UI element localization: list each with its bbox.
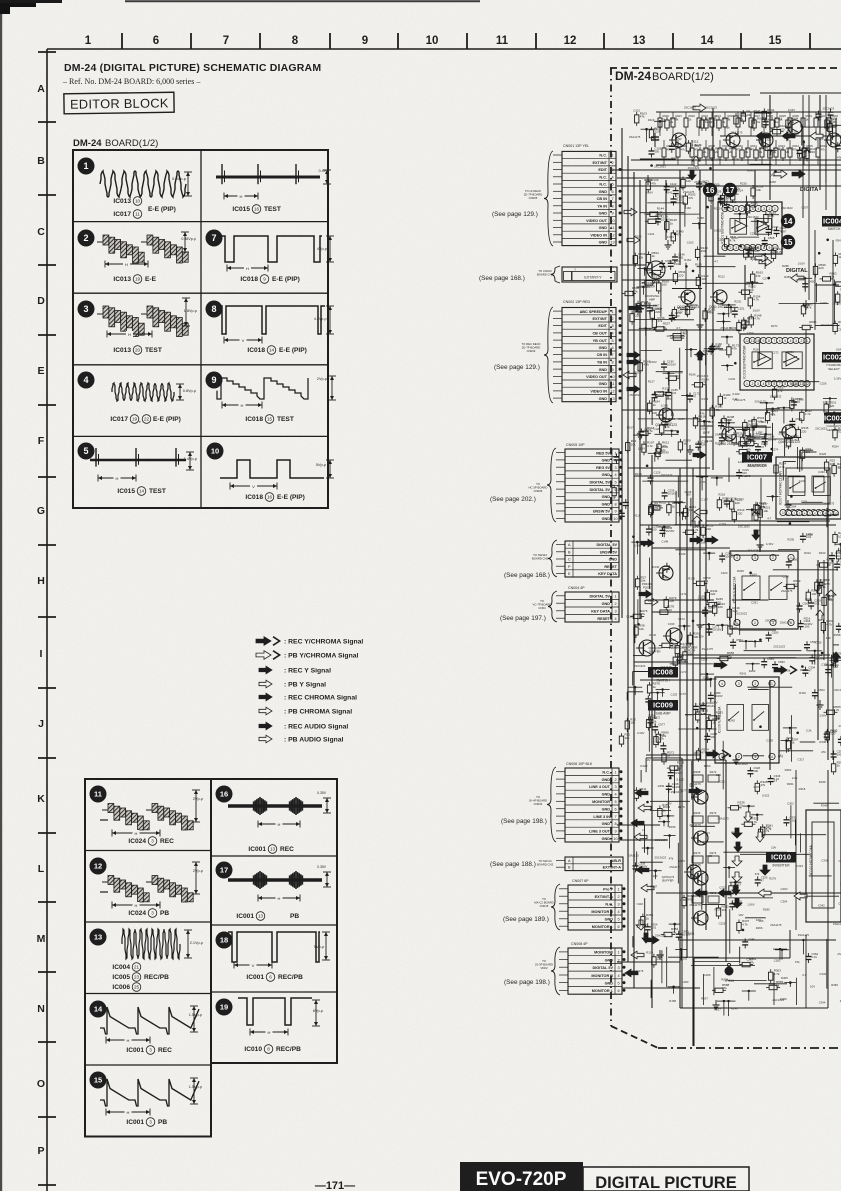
junction j334: [646, 801, 649, 804]
wire x307: [804, 895, 839, 897]
wire right rail 3: [805, 330, 807, 412]
resistor R565: [824, 705, 841, 715]
wire vseg 27: [800, 833, 802, 852]
ground 12: [817, 700, 824, 709]
node 587: [742, 990, 756, 1001]
value label t122: [717, 816, 729, 820]
schematic border dashed: [610, 68, 841, 1048]
resistor R189: [692, 377, 710, 387]
resistor R170: [670, 328, 688, 338]
node 541: [827, 411, 841, 425]
resistor R279: [664, 596, 677, 611]
value label 187: [712, 700, 717, 704]
wire seg 27: [650, 809, 671, 811]
resistor R107: [649, 126, 662, 141]
signal arrow 22: [631, 951, 644, 959]
panel 9 label: [245, 415, 293, 424]
wire vseg 8: [665, 392, 667, 419]
value label t187: [780, 230, 787, 234]
brace EXT/INT-Y: [551, 266, 560, 283]
resistor R232: [649, 500, 667, 510]
resistor R126: [745, 201, 758, 216]
capacitor C551: [730, 638, 743, 649]
panel 5 label: [117, 487, 165, 496]
value label t19: [648, 118, 655, 122]
value label t30: [653, 565, 660, 569]
junction j316: [739, 245, 742, 248]
resistor R112: [686, 140, 698, 155]
wire horizontal 3: [617, 185, 668, 187]
resistor R548: [728, 623, 741, 638]
wire vertical rail 12: [712, 108, 714, 470]
value label t21: [654, 165, 666, 169]
value label t198: [780, 621, 792, 625]
wire y290: [673, 766, 675, 794]
node 581: [796, 939, 810, 954]
value label t1: [633, 109, 640, 113]
node 603: [798, 277, 812, 292]
waveform panel 10 pulses: [207, 443, 335, 490]
value label 117: [767, 516, 771, 520]
value label t10: [634, 514, 641, 518]
value label t242: [818, 904, 825, 908]
wire seg 4: [702, 282, 763, 284]
value label t42: [667, 235, 674, 239]
resistor P24: [833, 426, 841, 441]
value label t159: [747, 549, 759, 553]
value label t28: [653, 427, 660, 431]
value label t11: [634, 544, 641, 548]
junction j318: [674, 233, 677, 236]
value label t109: [713, 182, 720, 186]
ground 3: [742, 320, 749, 329]
resistor R138: [720, 192, 733, 207]
wire seg 6: [728, 980, 767, 982]
waveform panel 9 staircase: [206, 372, 337, 409]
value label t50: [668, 622, 675, 626]
node dot 192: [781, 739, 793, 753]
resistor RT1: [671, 112, 682, 136]
wire seg 42: [666, 459, 692, 461]
wire x273: [800, 741, 816, 743]
waveform panel 8 pulses: [206, 301, 335, 344]
resistor R601: [833, 252, 841, 267]
resistor R514: [731, 189, 744, 204]
see page 197: [500, 615, 546, 622]
resistor R180: [718, 393, 731, 408]
transistor Q049: [663, 628, 682, 649]
value label 95: [707, 439, 713, 443]
panel 4 label: [110, 415, 180, 424]
value label t152: [753, 309, 760, 313]
wire y305: [668, 374, 670, 393]
connector EXT/INT-Y: [562, 267, 617, 282]
value label t99: [698, 595, 705, 599]
value label 231: [716, 773, 721, 777]
value label t82: [681, 957, 688, 961]
value label t217: [798, 758, 805, 762]
resistor R612: [657, 441, 670, 456]
junction j336: [669, 777, 672, 780]
node dot 123: [746, 508, 758, 521]
value label t170: [763, 277, 770, 281]
wire horizontal 19: [700, 409, 841, 411]
value label t71: [680, 592, 687, 596]
capacitor C508: [762, 236, 775, 247]
value label t238: [819, 740, 826, 744]
value label t73: [683, 644, 690, 648]
resistor R596: [633, 252, 646, 267]
resistor R133: [645, 214, 663, 224]
panel 12 label: [128, 909, 169, 918]
value label 153: [806, 533, 813, 537]
ref bubble 16: [703, 183, 717, 197]
DIGITAL PICTURE label: [583, 1167, 749, 1191]
value label t146: [731, 1007, 738, 1011]
capacitor C593: [659, 259, 672, 270]
value label t76: [685, 713, 692, 717]
value label t155: [755, 399, 767, 403]
signal arrow v12: [696, 350, 704, 360]
value label 238: [759, 919, 764, 923]
wire vertical rail 1: [621, 128, 623, 618]
node dot 120: [711, 477, 723, 486]
resistor R353: [661, 927, 679, 937]
value label t229: [819, 452, 826, 456]
signal arrow 20: [641, 884, 654, 892]
value label t52: [660, 665, 672, 669]
capacitor C120: [784, 130, 799, 141]
value label t205: [781, 976, 788, 980]
resistor C003: [734, 113, 747, 128]
signal arrow v13: [692, 516, 702, 526]
signal arrow 19: [636, 866, 649, 874]
value label 205: [640, 764, 648, 768]
value label t9: [635, 472, 642, 476]
panel 11 label: [128, 837, 174, 846]
capacitor P33: [660, 742, 666, 752]
wire vertical rail 7: [679, 468, 681, 1008]
value label 210: [657, 784, 664, 788]
value label t207: [801, 205, 808, 209]
wire vertical rail 18: [817, 560, 819, 740]
label PRF200: [642, 582, 653, 590]
value label t132: [734, 299, 741, 303]
value label 122: [760, 456, 768, 460]
resistor R503: [683, 193, 696, 208]
resistor R533: [736, 444, 754, 454]
resistor R542: [800, 409, 813, 424]
value label t102: [694, 712, 706, 716]
resistor R008: [724, 147, 737, 162]
value label t106: [704, 973, 711, 977]
resistor P26: [673, 654, 684, 669]
resistor R534: [752, 416, 765, 431]
value label t57: [669, 865, 681, 869]
value label t46: [661, 473, 673, 477]
resistor R172: [670, 331, 688, 341]
wire y287: [671, 392, 673, 417]
node 504: [692, 222, 706, 229]
node 535: [760, 402, 774, 415]
wire top bus 3: [612, 160, 841, 186]
node dot 186: [705, 678, 717, 688]
wire vseg 13: [637, 599, 639, 626]
value label t25: [644, 302, 651, 306]
resistor R517: [650, 307, 663, 322]
capacitor C301: [838, 735, 841, 746]
wire horizontal 27: [656, 185, 700, 187]
wire right rail 4: [825, 95, 827, 210]
node 546: [777, 407, 791, 424]
capacitor C507: [673, 186, 686, 197]
label IC002 right edge: [822, 352, 841, 363]
resistor R224: [774, 462, 787, 477]
wire right rail 0: [802, 95, 804, 218]
node 582: [722, 1000, 736, 1016]
transistor Q030: [684, 865, 701, 879]
capacitor C199: [695, 440, 708, 451]
value label t264: [837, 952, 841, 956]
resistor R165: [751, 271, 764, 286]
op-amp symbol IC002a: [758, 352, 771, 366]
resistor R583: [739, 957, 757, 967]
op-amp IC002 block: [740, 334, 814, 390]
wire seg 40: [697, 266, 736, 268]
value label t18: [632, 969, 644, 973]
wire horizontal 11: [652, 547, 730, 549]
transistor Q073: [689, 891, 719, 925]
value label t40: [672, 156, 679, 160]
wire vseg 12: [677, 843, 679, 884]
wire vseg 28: [703, 974, 705, 1005]
resistor R545: [796, 426, 809, 441]
legend signal arrows: [256, 637, 363, 744]
node 558: [825, 664, 839, 678]
value label t90: [705, 309, 712, 313]
value label t160: [750, 573, 757, 577]
capacitor C115: [835, 141, 841, 152]
value label 199: [838, 724, 841, 728]
resistor R607: [801, 302, 814, 317]
resistor R589: [766, 980, 784, 990]
node 525: [680, 308, 694, 315]
value label t101: [701, 657, 708, 661]
resistor R345: [758, 826, 771, 841]
wire y291: [826, 508, 828, 527]
wire vertical rail 4: [639, 180, 641, 618]
signal arrow v5: [734, 842, 742, 852]
capacitor P37: [645, 695, 651, 705]
see page 188: [490, 861, 536, 868]
capacitor C364: [805, 952, 818, 963]
resistor P25: [654, 733, 665, 748]
value label t66: [689, 372, 696, 376]
value label t119: [719, 522, 726, 526]
value label t248: [840, 288, 841, 292]
junction j350: [729, 754, 732, 757]
resistor R173: [727, 343, 740, 358]
value label 5: [724, 126, 730, 130]
wire x286: [702, 903, 725, 905]
capacitor C167: [697, 349, 710, 360]
label IC008: [648, 667, 678, 683]
node dot 76: [721, 336, 733, 345]
capacitor P4: [763, 118, 769, 128]
resistor R229: [730, 498, 743, 512]
resistor R184: [647, 400, 660, 415]
connector CN007: [559, 879, 622, 930]
wire horizontal 15: [640, 679, 712, 681]
junction j323: [696, 727, 699, 730]
wire P36: [646, 758, 681, 772]
signal arrow 24: [714, 661, 727, 669]
value label t129: [732, 157, 739, 161]
value label t167: [747, 958, 754, 962]
value label t7: [627, 425, 634, 429]
signal arrow 15: [638, 804, 651, 812]
value label t189: [784, 275, 791, 279]
value label t26: [649, 360, 656, 364]
value label t77: [680, 788, 687, 792]
resistor R599: [813, 263, 826, 278]
resistor R278: [657, 605, 675, 615]
net DIGITAL mid: [786, 268, 808, 282]
value label t92: [697, 374, 709, 378]
panel 10 label: [245, 493, 304, 502]
resistor P21: [832, 462, 841, 477]
value label t260: [839, 859, 841, 863]
value label t250: [837, 327, 841, 331]
resistor R162: [739, 285, 757, 295]
resistor R148: [749, 313, 762, 328]
resistor R007: [710, 147, 723, 162]
see page 198 upper: [501, 818, 547, 825]
wire seg 12: [746, 438, 786, 440]
value label t179: [769, 877, 776, 881]
resistor R017: [781, 147, 794, 162]
value label t24: [648, 232, 655, 236]
node dot 118: [767, 495, 779, 501]
value label t216: [799, 691, 806, 695]
panel 16 label: [248, 845, 294, 854]
net DIGITAL upper: [800, 187, 818, 193]
value label t237: [819, 714, 826, 718]
resistor P19: [800, 447, 811, 462]
capacitor C304: [802, 666, 815, 677]
value label t182: [774, 959, 781, 963]
resistor R245: [706, 597, 724, 607]
value label 215: [677, 778, 685, 782]
resistor R011: [740, 147, 752, 162]
wire vseg 10: [797, 447, 799, 469]
value label 170: [699, 634, 704, 638]
resistor RB10: [802, 140, 813, 165]
wire vertical rail 10: [699, 170, 701, 760]
value label t114: [720, 326, 732, 330]
wire y311: [654, 704, 656, 719]
schematic title: [615, 69, 714, 83]
wire y268: [644, 898, 646, 940]
value label t107: [701, 997, 708, 1001]
wire y299: [710, 205, 712, 230]
resistor R276: [630, 609, 648, 619]
value label t31: [648, 599, 655, 603]
resistor R271: [675, 642, 688, 657]
wire y281: [675, 491, 677, 525]
brace CN008: [551, 947, 560, 995]
wire seg 17: [650, 800, 690, 802]
wire vertical rail 22: [744, 265, 746, 300]
capacitor P34: [664, 563, 670, 573]
value label t265: [831, 983, 838, 987]
capacitor C325: [729, 899, 742, 910]
waveform panel 7 pulses: [206, 230, 335, 272]
wire y275: [825, 160, 827, 183]
waveform panel 15 sawtooth: [90, 1072, 203, 1116]
capacitor C288: [704, 732, 717, 743]
signal arrow 23: [625, 969, 638, 977]
wire vertical rail 24: [665, 180, 667, 240]
capacitor C216: [724, 497, 737, 508]
wire P28: [627, 692, 643, 701]
capacitor C192: [709, 342, 722, 353]
value label t154: [753, 348, 760, 352]
value label t222: [817, 137, 824, 141]
wire x300: [672, 288, 702, 290]
wire y297: [651, 398, 653, 425]
value label t133: [730, 326, 737, 330]
value label t150: [750, 231, 757, 235]
see page 129 lower: [494, 364, 540, 371]
waveform panel 18 pulses: [216, 932, 331, 969]
junction j321: [646, 465, 649, 468]
wire P1: [802, 127, 837, 145]
value label t74: [679, 670, 686, 674]
resistor R291: [831, 760, 841, 775]
wire horizontal 29: [700, 94, 750, 96]
value label t56: [669, 825, 676, 829]
resistor R159: [685, 303, 698, 318]
capacitor C108: [797, 146, 810, 157]
wire horizontal 5: [622, 279, 700, 281]
node 592: [637, 286, 651, 295]
resistor R249: [727, 606, 740, 621]
resistor R264: [821, 619, 834, 634]
node dot 51: [718, 313, 730, 325]
value label t256: [840, 495, 841, 499]
resistor P13: [626, 439, 637, 454]
wire horizontal 22: [622, 987, 700, 989]
capacitor C215: [736, 468, 749, 479]
capacitor C564: [812, 688, 825, 699]
capacitor P2: [828, 109, 834, 119]
wire seg 2: [640, 212, 684, 214]
value label t208: [798, 261, 805, 265]
node 502: [765, 214, 779, 229]
resistor R511: [725, 235, 737, 250]
value label t259: [834, 688, 841, 692]
wire y298: [679, 348, 681, 390]
resistor R598: [622, 286, 640, 296]
chevron arrow IC009 in: [706, 750, 783, 758]
resistor R210: [732, 431, 745, 446]
value label 64: [720, 300, 725, 304]
resistor R311: [634, 787, 646, 802]
wire right rail 6: [823, 560, 825, 660]
wire horizontal 8: [628, 467, 710, 469]
wire right rail 5: [832, 240, 834, 330]
